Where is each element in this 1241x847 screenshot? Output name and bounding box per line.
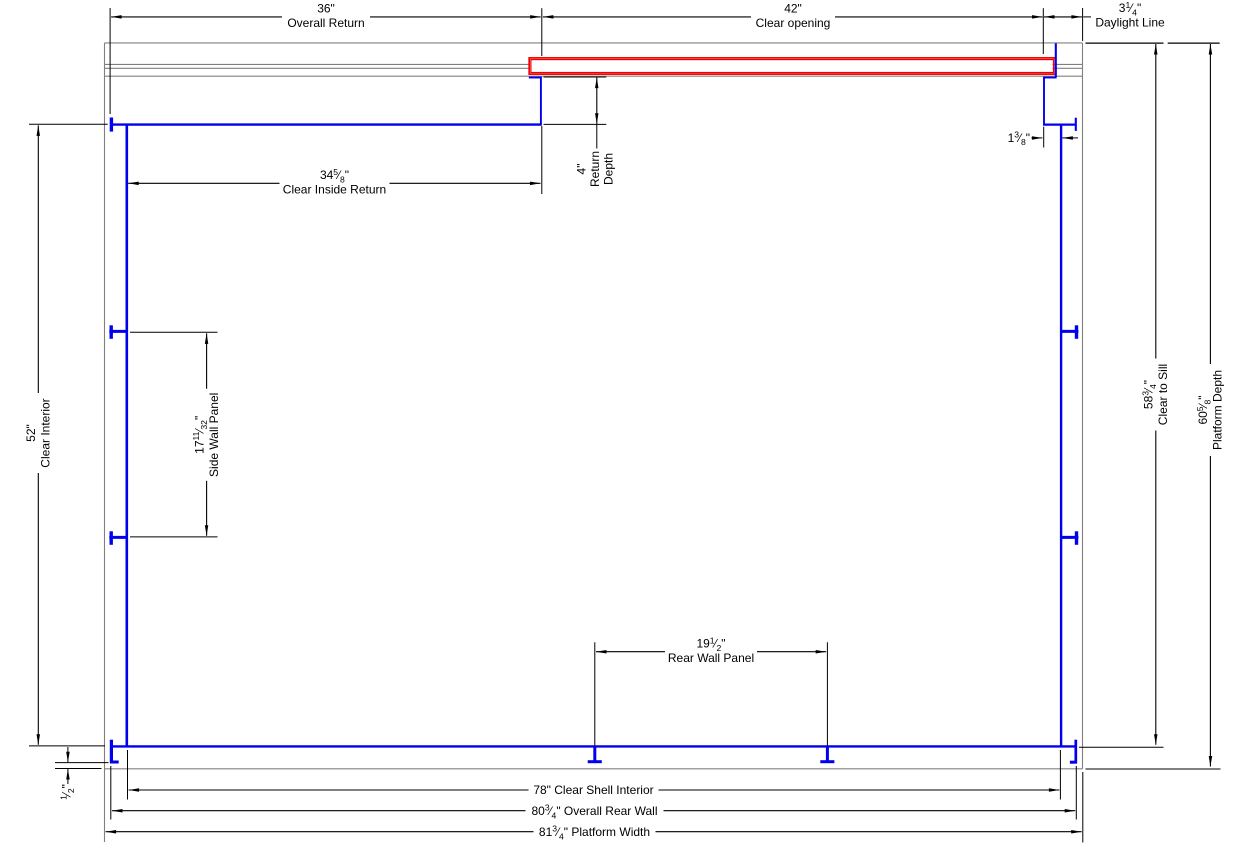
- svg-text:Daylight Line: Daylight Line: [1095, 16, 1165, 30]
- dimension 60-5/8 platform depth: [1209, 44, 1211, 767]
- svg-text:Clear to Sill: Clear to Sill: [1156, 364, 1170, 425]
- leader daylight line: [1083, 16, 1092, 18]
- header rail inner (red): [531, 60, 1054, 73]
- svg-text:13⁄8": 13⁄8": [1008, 130, 1030, 148]
- dimension 81-3/4 platform width: [106, 831, 1082, 833]
- platform bottom edge (grey): [105, 768, 1083, 770]
- return wall top (blue): [111, 123, 542, 125]
- daylight post stub (blue): [1055, 43, 1057, 77]
- right side wall (blue): [1060, 124, 1062, 748]
- dimension 4in return depth: [596, 78, 598, 124]
- rear-left corner bracket (blue): [110, 740, 113, 764]
- track lower line left (grey): [105, 67, 530, 69]
- extension line rear panel left: [594, 642, 596, 745]
- dimension 34-5/8in clear inside return: [128, 182, 540, 184]
- extension line return depth bottom: [544, 123, 607, 125]
- label 4in Return Depth: [574, 151, 615, 187]
- dimension 58-3/4 clear to sill: [1155, 44, 1157, 745]
- svg-text:Rear Wall Panel: Rear Wall Panel: [668, 651, 754, 665]
- extension line clear interior top: [29, 123, 108, 125]
- dimension 42in clear opening: [543, 16, 1043, 18]
- svg-text:Depth: Depth: [601, 153, 615, 185]
- extension line half-inch upper: [55, 762, 109, 764]
- extension line half-inch lower: [55, 768, 102, 770]
- dimension 17-11/32 side wall panel: [206, 333, 208, 535]
- label 58-3/4 Clear to Sill: [1140, 359, 1170, 431]
- label 34-5/8 Clear Inside Return: [280, 169, 390, 198]
- right wall panel joint lower (blue): [1061, 536, 1078, 539]
- extension line return/opening: [541, 8, 543, 56]
- return wall end cap (blue): [110, 118, 113, 132]
- extension line platform depth bottom: [1086, 768, 1221, 770]
- dimension 3-1/4in daylight line: [1044, 16, 1082, 18]
- right ledge end cap (blue): [1075, 118, 1077, 131]
- label 80-3/4 Overall Rear Wall: [526, 803, 664, 818]
- svg-text:Platform Depth: Platform Depth: [1211, 370, 1225, 450]
- dimension 1/2in arrows: [67, 747, 69, 762]
- track lower line right (grey): [1053, 67, 1083, 69]
- label 60-5/8 Platform Depth: [1195, 364, 1225, 456]
- return step top (blue): [529, 77, 542, 79]
- left side wall (blue): [126, 124, 129, 748]
- platform left edge (grey): [104, 43, 106, 842]
- right step bottom ledge (blue): [1043, 123, 1076, 125]
- extension line 81-3/4 right: [1082, 772, 1084, 843]
- rear wall joint right (blue): [826, 747, 829, 762]
- extension line return depth top: [544, 76, 607, 78]
- shell band bottom line (grey): [105, 75, 1083, 77]
- extension line overall-return left: [109, 8, 111, 114]
- right wall panel joint upper (blue): [1061, 330, 1078, 333]
- extension line clear-opening right: [1042, 8, 1044, 54]
- extension line platform depth top: [1168, 42, 1220, 44]
- extension line rear panel right: [826, 642, 828, 745]
- svg-text:52": 52": [24, 424, 38, 442]
- extension line inside-return right: [541, 126, 543, 194]
- svg-text:36": 36": [317, 2, 335, 16]
- label 78 Clear Shell Interior: [529, 783, 659, 798]
- dimension 80-3/4 overall rear wall: [112, 810, 1075, 812]
- right step vertical (blue): [1043, 77, 1045, 125]
- svg-text:Clear opening: Clear opening: [756, 16, 831, 30]
- svg-text:1⁄2": 1⁄2": [59, 784, 77, 800]
- rear-right corner bracket (blue): [1074, 740, 1077, 764]
- dimension 52in clear interior: [37, 125, 39, 744]
- left wall panel joint upper (blue): [109, 330, 127, 333]
- platform right edge (grey): [1082, 43, 1084, 769]
- right step top (blue): [1043, 77, 1057, 79]
- dimension 4in leader stub: [596, 124, 598, 149]
- extension line sill top: [1086, 42, 1164, 44]
- track upper line right (grey): [1053, 63, 1083, 65]
- svg-text:803⁄4" Overall Rear Wall: 803⁄4" Overall Rear Wall: [531, 803, 657, 821]
- label 1/2in: [59, 784, 77, 800]
- extension line daylight right: [1082, 8, 1084, 41]
- svg-text:Return: Return: [588, 151, 602, 187]
- svg-text:Clear Interior: Clear Interior: [39, 398, 53, 467]
- svg-text:78" Clear Shell Interior: 78" Clear Shell Interior: [533, 783, 653, 797]
- label 81-3/4 Platform Width: [534, 824, 656, 839]
- rear wall joint left (blue): [593, 747, 596, 762]
- dimension 1-3/8 arrows: [1032, 137, 1043, 139]
- label 17-11/32 Side Wall Panel: [191, 389, 221, 481]
- extension line clear interior bottom: [29, 745, 105, 747]
- svg-text:42": 42": [784, 2, 802, 16]
- label 3-1/4in Daylight Line: [1091, 2, 1169, 31]
- extension line 80-3/4 right: [1075, 766, 1077, 820]
- label 52 Clear Interior: [24, 393, 53, 473]
- extension line 78 right: [1059, 750, 1061, 800]
- rear wall (blue): [111, 745, 1077, 747]
- label 19-1/2 Rear Wall Panel: [665, 637, 757, 666]
- shell top edge (grey): [105, 42, 1083, 44]
- dimension 78 clear shell interior: [129, 789, 1060, 791]
- extension line 78 left: [127, 750, 129, 800]
- dimension 19-1/2 rear wall panel: [596, 651, 826, 653]
- left wall panel joint lower (blue): [109, 536, 127, 539]
- svg-text:Side Wall Panel: Side Wall Panel: [207, 393, 221, 477]
- header rail outer (red): [529, 58, 1055, 74]
- svg-text:Clear Inside Return: Clear Inside Return: [283, 183, 386, 197]
- svg-text:4": 4": [574, 164, 588, 175]
- extension line 80-3/4 left: [110, 766, 112, 820]
- extension line side panel bottom: [130, 536, 218, 538]
- extension line side panel top: [130, 331, 218, 333]
- extension line sill bottom: [1079, 746, 1164, 748]
- dimension 36in overall return: [111, 16, 541, 18]
- track upper line left (grey): [105, 63, 530, 65]
- svg-text:Overall Return: Overall Return: [287, 16, 364, 30]
- extension line step offset: [1043, 127, 1045, 148]
- label 36in Overall Return: [282, 2, 370, 31]
- label 42in Clear opening: [751, 2, 835, 31]
- return step vertical (blue): [540, 77, 542, 124]
